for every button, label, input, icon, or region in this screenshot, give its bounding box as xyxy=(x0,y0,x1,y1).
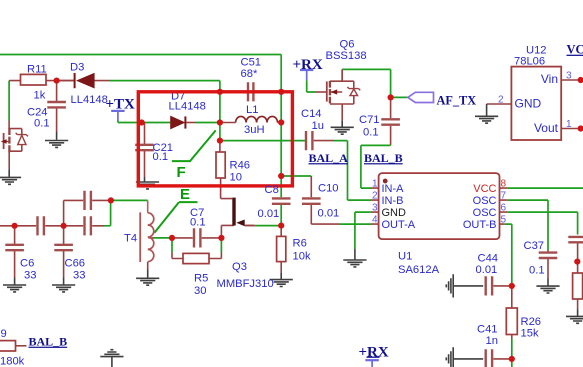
wire R9 lead xyxy=(16,345,27,347)
wire C6 hang xyxy=(14,226,16,278)
wire U1 right stubs xyxy=(500,188,508,224)
svg-text:0.01: 0.01 xyxy=(258,208,280,220)
svg-text:T4: T4 xyxy=(124,233,137,245)
node D7 cathode / L1 xyxy=(217,119,223,125)
wire C21 hang wire xyxy=(144,123,146,178)
capacitor chain cap C (upper bypass y=200.4) xyxy=(85,191,91,210)
svg-text:Vin: Vin xyxy=(541,72,558,86)
capacitor C21 xyxy=(135,145,154,150)
capacitor right edge (on pin6 chain) xyxy=(568,237,583,242)
svg-text:0.1: 0.1 xyxy=(153,151,169,163)
wire C7 row y=237.9 xyxy=(172,237,221,239)
wire node x281 to C10 top xyxy=(281,175,311,177)
wire L1 leads xyxy=(220,122,281,124)
node chain mid xyxy=(61,223,67,229)
svg-text:9: 9 xyxy=(1,328,7,340)
svg-text:Vout: Vout xyxy=(534,121,559,135)
ground rotated (C41 left) xyxy=(446,347,453,367)
ground rotated (C44 left) xyxy=(446,274,453,297)
svg-text:1n: 1n xyxy=(486,335,498,347)
ground (Q6) xyxy=(331,127,354,134)
svg-text:10k: 10k xyxy=(293,251,311,263)
wire C41 row y=358.9 xyxy=(453,358,483,360)
svg-text:R5: R5 xyxy=(194,273,208,285)
IC U12 78L06 box xyxy=(511,67,561,140)
wire R11 row y=80.5 xyxy=(9,80,74,82)
svg-text:180k: 180k xyxy=(0,356,25,367)
svg-text:0.1: 0.1 xyxy=(190,217,206,229)
svg-text:U1: U1 xyxy=(398,251,412,263)
ground (U12 pin2) xyxy=(475,116,498,123)
wire U12 pin2 to ground xyxy=(487,103,512,105)
svg-text:GND: GND xyxy=(515,97,542,111)
connector flag AF_TX xyxy=(408,92,434,102)
wire right cap to resistor chain xyxy=(577,242,579,272)
wire Q6 source to ground xyxy=(341,104,343,121)
node L1 right xyxy=(278,119,284,125)
svg-text:6: 6 xyxy=(501,203,507,214)
resistor R46 xyxy=(216,152,225,178)
svg-text:OUT-A: OUT-A xyxy=(382,219,416,231)
svg-text:E: E xyxy=(180,186,190,203)
svg-text:C37: C37 xyxy=(524,240,545,252)
svg-text:Q6: Q6 xyxy=(340,39,355,51)
svg-text:IN-A: IN-A xyxy=(382,183,405,195)
transformer T4 xyxy=(140,212,154,262)
wire U1 pin5 drop to C44 node xyxy=(505,224,512,286)
capacitor C41 xyxy=(486,349,492,367)
wire top rail y=54.5 xyxy=(0,54,281,56)
capacitor C24 xyxy=(47,102,66,107)
node C41 / R26 xyxy=(509,356,515,362)
node C7 right / Q3 source xyxy=(218,235,224,241)
transistor Q3 (JFET MMBFJ310) xyxy=(234,198,245,227)
ground (Q5) xyxy=(0,177,21,184)
svg-text:C10: C10 xyxy=(318,183,339,195)
svg-text:+RX: +RX xyxy=(293,57,323,73)
svg-text:OSC: OSC xyxy=(473,207,497,219)
svg-text:3uH: 3uH xyxy=(244,124,265,136)
svg-text:0.1: 0.1 xyxy=(363,127,379,139)
wire U1 pin8 VCC rail xyxy=(508,187,583,189)
wire C24 hang xyxy=(56,81,58,132)
wire C66 hang xyxy=(63,226,65,278)
wire Q3 source to C7 node xyxy=(221,225,234,238)
node chain left xyxy=(12,223,18,229)
diode D3 xyxy=(57,73,95,89)
capacitor C14 xyxy=(306,131,312,150)
svg-text:R46: R46 xyxy=(230,160,251,172)
wire Q6 drain to AF_TX node xyxy=(341,69,343,81)
svg-text:C14: C14 xyxy=(301,108,322,120)
ground (C21) xyxy=(136,182,159,189)
svg-text:78L06: 78L06 xyxy=(514,56,545,68)
svg-text:VCC: VCC xyxy=(567,43,583,57)
ground (U1 pin3) xyxy=(343,260,366,267)
wire T4 bottom to ground xyxy=(147,262,149,270)
svg-text:33: 33 xyxy=(73,270,85,282)
wire inverted ground stem xyxy=(111,357,113,367)
switch F blade xyxy=(172,130,216,161)
svg-text:C8: C8 xyxy=(265,184,279,196)
svg-text:BAL_A: BAL_A xyxy=(309,151,349,165)
svg-text:0.01: 0.01 xyxy=(318,208,340,220)
wire U1 pin7 to C37 xyxy=(508,200,548,250)
svg-text:BAL_B: BAL_B xyxy=(364,151,403,165)
capacitor C44 xyxy=(486,276,492,295)
svg-text:3: 3 xyxy=(372,203,378,214)
resistor R11 xyxy=(21,74,47,85)
svg-text:8: 8 xyxy=(501,179,507,190)
transistor Q5 (clipped MOSFET with zener) xyxy=(1,128,28,152)
ground (C37) xyxy=(536,286,559,293)
ground (C24) xyxy=(45,141,68,148)
svg-text:33: 33 xyxy=(24,270,36,282)
svg-text:15k: 15k xyxy=(521,328,539,340)
svg-text:IN-B: IN-B xyxy=(382,195,404,207)
wire AF_TX node down to C71 xyxy=(390,97,392,118)
wire R6 bottom to ground xyxy=(280,262,282,273)
ground (C66) xyxy=(52,285,75,292)
ground (right edge chain) xyxy=(566,316,583,323)
wire C44 row y=285.9 xyxy=(453,285,483,287)
diode D7 xyxy=(171,116,186,128)
wire Q3 gate lead xyxy=(245,224,254,226)
wire +TX stem to D7 anode y=122.5 xyxy=(117,112,119,121)
wire C37 bottom to ground xyxy=(547,258,549,278)
svg-text:30: 30 xyxy=(194,285,206,297)
capacitor C10 xyxy=(302,198,321,203)
resistor R6 xyxy=(277,236,286,261)
svg-text:R6: R6 xyxy=(293,238,307,250)
wire R46 row y=140.6 to C14 xyxy=(220,140,305,142)
svg-text:2: 2 xyxy=(498,95,504,106)
wire C10 bottom to U1 pin4 xyxy=(311,205,340,224)
svg-text:+RX: +RX xyxy=(359,345,389,361)
node right chain xyxy=(574,259,580,265)
capacitor C66 xyxy=(54,245,73,250)
svg-text:5: 5 xyxy=(501,215,507,226)
wire T4 tap row y=237.9 xyxy=(149,237,155,239)
capacitor C7 xyxy=(194,228,200,247)
svg-text:0.1: 0.1 xyxy=(529,265,545,277)
svg-text:1: 1 xyxy=(566,119,572,130)
svg-text:0.01: 0.01 xyxy=(476,264,498,276)
svg-text:C71: C71 xyxy=(359,114,380,126)
svg-text:R26: R26 xyxy=(521,316,542,328)
ground inverted (bottom left) xyxy=(100,350,123,357)
wire R11 left lead down to Q5 xyxy=(8,81,10,121)
node T4 tap / C7 left xyxy=(169,235,175,241)
capacitor C71 xyxy=(381,119,400,124)
wire D3 cathode lead green to x=220 corner xyxy=(93,80,110,82)
wire R26 bottom to C41 node xyxy=(511,335,513,339)
svg-text:C44: C44 xyxy=(478,253,499,265)
resistor R9 (clipped bottom left) xyxy=(0,341,16,351)
U1 pin1 marker dot xyxy=(383,179,388,184)
wire U12 pin1 xyxy=(561,128,578,130)
node D7 anode / +TX xyxy=(139,119,145,125)
wire R5 right leg xyxy=(220,239,222,253)
svg-text:0.1: 0.1 xyxy=(34,118,50,130)
inductor L1 xyxy=(236,116,278,122)
svg-text:C66: C66 xyxy=(65,258,86,270)
svg-text:BSS138: BSS138 xyxy=(326,50,367,62)
svg-text:R11: R11 xyxy=(27,63,47,75)
wire C44 node down to R26 xyxy=(511,286,513,308)
wire C6/C66 chain row y=225.8 xyxy=(0,225,104,227)
resistor right edge (on pin6 chain) xyxy=(573,273,583,299)
node U12 pin3 xyxy=(578,77,583,83)
node C8 top xyxy=(278,173,284,179)
svg-text:OSC: OSC xyxy=(473,195,497,207)
node R11/D3/C24 xyxy=(54,78,60,84)
node AF_TX / Q6 drain xyxy=(388,94,394,100)
wire U1 pin6 to right cap xyxy=(508,212,578,234)
svg-text:C51: C51 xyxy=(241,57,262,69)
node Q3 gate / C8 bottom xyxy=(278,223,284,229)
wire Q5 source to ground xyxy=(8,152,10,170)
wire upper bypass branch y=200.4 xyxy=(64,200,108,225)
wire R46 vertical xyxy=(220,141,232,199)
node C51 left xyxy=(217,89,223,95)
svg-text:7: 7 xyxy=(501,191,507,202)
svg-text:4: 4 xyxy=(372,215,378,226)
resistor R26 xyxy=(506,308,517,335)
node R46 top xyxy=(217,138,223,144)
ground (C6) xyxy=(3,285,26,292)
capacitor C8 xyxy=(272,198,291,203)
ground (R6) xyxy=(270,280,293,287)
svg-text:68*: 68* xyxy=(241,68,258,80)
svg-text:1u: 1u xyxy=(312,120,324,132)
svg-text:3: 3 xyxy=(566,71,572,82)
wire C51 row y=91.8 xyxy=(220,91,281,93)
capacitor C37 xyxy=(539,253,558,258)
resistor R5 xyxy=(183,253,209,263)
svg-text:10: 10 xyxy=(230,172,242,184)
svg-text:C6: C6 xyxy=(20,258,34,270)
svg-text:GND: GND xyxy=(382,207,407,219)
supply +TX T-bar xyxy=(111,110,124,112)
supply +RX bottom T-bar xyxy=(365,359,378,361)
node C51 right xyxy=(278,89,284,95)
node C44 / pin5 xyxy=(509,283,515,289)
wire R5 left leg xyxy=(171,239,173,253)
ground (T4) xyxy=(136,278,159,285)
svg-text:D3: D3 xyxy=(70,61,84,73)
wire C14 right to BAL_A drop xyxy=(314,140,334,142)
svg-text:MMBFJ310: MMBFJ310 xyxy=(217,278,274,290)
wire D7 cathode to L1 xyxy=(187,122,197,124)
svg-text:LL4148: LL4148 xyxy=(169,101,206,113)
svg-text:1: 1 xyxy=(372,179,378,190)
svg-text:BAL_B: BAL_B xyxy=(29,335,68,349)
capacitor C51 xyxy=(248,82,253,101)
svg-text:Q3: Q3 xyxy=(232,261,247,273)
node U12 pin1 xyxy=(578,125,583,131)
wire +RX bottom stem xyxy=(371,361,373,367)
node chain top right xyxy=(108,197,114,203)
wire U12 pin3 xyxy=(561,79,578,81)
wire C8 bottom node to Q3 gate and R6 xyxy=(255,225,281,227)
wire vertical net x=281 (top rail down to C8 and R6) xyxy=(280,55,282,226)
svg-text:F: F xyxy=(177,164,186,181)
svg-text:SA612A: SA612A xyxy=(398,264,440,276)
svg-text:OUT-B: OUT-B xyxy=(463,219,497,231)
IC U1 SA612A box xyxy=(379,173,500,239)
wire U1 pin1 stub xyxy=(371,188,379,224)
transistor Q6 (BSS138 MOSFET) xyxy=(327,69,360,104)
highlight rectangle (red selection box) xyxy=(138,92,292,186)
svg-text:VCC: VCC xyxy=(473,183,496,195)
supply +RX top T-bar xyxy=(300,69,313,71)
wire U1 pin3 GND drop xyxy=(355,212,371,249)
wire +RX stem to Q6 gate xyxy=(306,71,308,81)
svg-text:L1: L1 xyxy=(246,104,258,116)
capacitor chain cap B (series on y=225.8) xyxy=(85,216,91,235)
wire C71 bottom to BAL_B drop xyxy=(390,126,392,146)
capacitor chain cap A (series on y=225.8) xyxy=(38,216,44,235)
svg-text:+TX: +TX xyxy=(106,97,136,113)
svg-text:AF_TX: AF_TX xyxy=(437,94,477,108)
wire T4 top lead xyxy=(147,200,149,212)
svg-text:C41: C41 xyxy=(477,324,498,336)
capacitor C6 xyxy=(5,245,24,250)
svg-text:LL4148: LL4148 xyxy=(71,94,108,106)
svg-text:2: 2 xyxy=(372,191,378,202)
switch E blade xyxy=(154,202,197,233)
svg-text:1k: 1k xyxy=(34,90,46,102)
